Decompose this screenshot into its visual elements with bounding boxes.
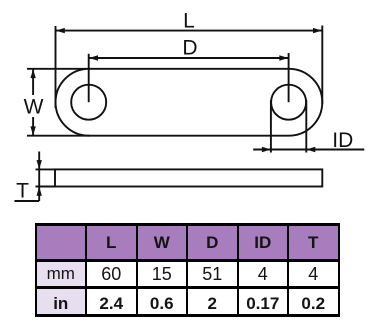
T label leader / underline xyxy=(15,200,40,202)
svg-text:L: L xyxy=(183,10,195,33)
W extension line bottom xyxy=(27,135,90,137)
ID arrowhead left (pointing right) xyxy=(262,147,271,152)
L arrowhead right xyxy=(313,28,322,33)
side view plate rectangle xyxy=(55,169,322,186)
D dimension line xyxy=(89,57,289,59)
svg-text:T: T xyxy=(16,180,29,203)
L dimension line xyxy=(56,30,323,32)
W dimension line upper segment xyxy=(32,69,34,95)
T arrowhead top (pointing down) xyxy=(37,160,42,169)
ID extension line right xyxy=(305,100,307,153)
D extension line left xyxy=(88,54,90,102)
dimension table xyxy=(35,223,340,317)
svg-text:W: W xyxy=(24,95,44,118)
left hole xyxy=(71,85,106,120)
D arrowhead left xyxy=(89,55,98,60)
W arrowhead bottom xyxy=(30,126,35,135)
svg-text:ID: ID xyxy=(332,129,353,152)
L extension line right xyxy=(321,26,323,105)
ID arrowhead right (pointing left) xyxy=(306,147,315,152)
T extension line top xyxy=(36,168,57,170)
L arrowhead left xyxy=(56,28,65,33)
W extension line top xyxy=(27,68,90,70)
T extension line bottom xyxy=(36,186,57,188)
D extension line right xyxy=(288,53,290,102)
D arrowhead right xyxy=(279,55,288,60)
ID extension line left xyxy=(270,100,272,153)
W arrowhead top xyxy=(30,69,35,78)
plate outline (top view stadium shape) xyxy=(56,69,323,136)
L extension line left xyxy=(55,26,57,108)
T dimension line xyxy=(38,152,40,202)
T arrowhead bottom (pointing up) xyxy=(37,187,42,196)
W dimension line lower segment xyxy=(32,117,34,136)
ID dimension line xyxy=(253,149,364,151)
right hole xyxy=(271,85,306,120)
svg-text:D: D xyxy=(182,36,197,59)
